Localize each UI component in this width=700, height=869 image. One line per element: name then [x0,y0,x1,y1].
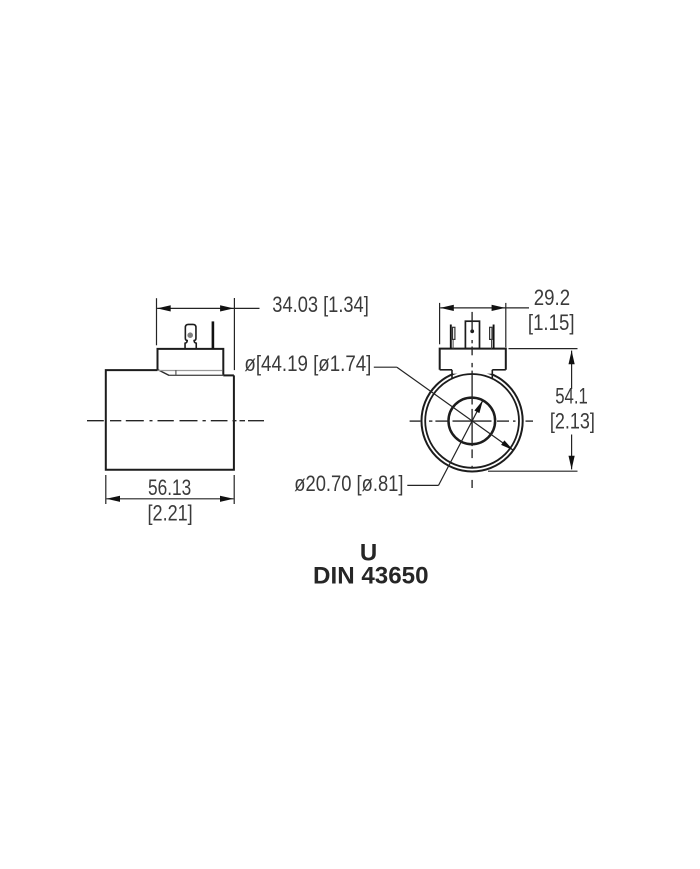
arrowhead 54.1 down [569,456,575,470]
dimension 34.03 line [157,307,259,309]
housing inner gray line [158,370,222,372]
dimension 29.2 line [440,307,529,309]
neck right edge [491,370,493,379]
dimension 34.03 extension line left [156,298,158,345]
arrowhead 54.1 up [569,351,575,365]
right pin slot tail [491,339,493,348]
svg-text:DIN 43650: DIN 43650 [313,563,429,590]
body top right edge [223,374,234,376]
ground screw terminal (left pin) [185,324,196,348]
arrowhead 56.13 right [220,496,234,502]
base bottom left segment [440,369,452,371]
centerline (left view) [87,420,264,422]
housing bottom edge line [169,374,224,376]
dimension 56.13 line [106,498,233,500]
right pin slot [490,327,492,339]
straight spade pin [212,321,215,348]
dimension 54.1 bottom extension line [488,470,578,472]
connector base (front) [440,349,506,370]
leader line o20.70 tail [407,484,438,486]
svg-text:29.2: 29.2 [534,285,570,310]
left pin slot tail [452,339,454,348]
neck left edge [451,370,453,379]
bore circle [449,398,496,445]
arrowhead 34.03 right [220,305,234,311]
arrowhead 29.2 right [492,305,506,311]
leader line o20.70 diagonal [439,400,483,485]
dimension 54.1 line lower [571,435,573,470]
svg-text:[2.13]: [2.13] [550,408,595,433]
right spade pin (front) [493,325,495,349]
arrowhead 56.13 left [106,496,120,502]
svg-text:ø20.70 [ø.81]: ø20.70 [ø.81] [294,471,403,496]
vertical centerline [471,312,473,488]
left spade pin (front) [450,325,452,349]
dimension 56.13 extension line left [105,475,107,504]
chamfer end tick [175,370,177,375]
dimension 54.1 line upper [571,351,573,389]
dimension 54.1 top extension line [509,348,578,350]
connector housing block (side view) [158,349,224,375]
dimension 56.13 extension line right [233,475,235,504]
arrowhead o44.19 [501,440,513,450]
svg-text:54.1: 54.1 [555,384,588,409]
svg-text:ø[44.19 [ø1.74]: ø[44.19 [ø1.74] [244,351,371,376]
dimension 34.03 extension line right [233,298,235,370]
middle pin center dot [470,329,474,333]
left pin slot [453,327,455,339]
screw head dot [187,332,193,338]
coil body outline [106,370,234,470]
outer flange circle [422,370,523,471]
svg-text:34.03 [1.34]: 34.03 [1.34] [272,292,369,317]
leader line o44.19 tail [374,366,397,368]
arrowhead 29.2 left [440,305,454,311]
horizontal centerline [410,420,533,422]
rim circle [425,374,519,468]
svg-text:[2.21]: [2.21] [148,500,193,525]
arrowhead o20.70 [474,400,483,413]
base bottom right segment [492,369,506,371]
leader line o44.19 diagonal [397,367,513,450]
arrowhead 34.03 left [157,305,171,311]
middle pin housing [465,321,479,348]
housing chamfer [158,370,169,376]
dimension 29.2 extension line right [505,303,507,347]
svg-text:[1.15]: [1.15] [528,310,575,335]
neck mask over flange top [453,367,492,374]
svg-text:56.13: 56.13 [148,475,191,500]
dimension 29.2 extension line left [439,303,441,344]
